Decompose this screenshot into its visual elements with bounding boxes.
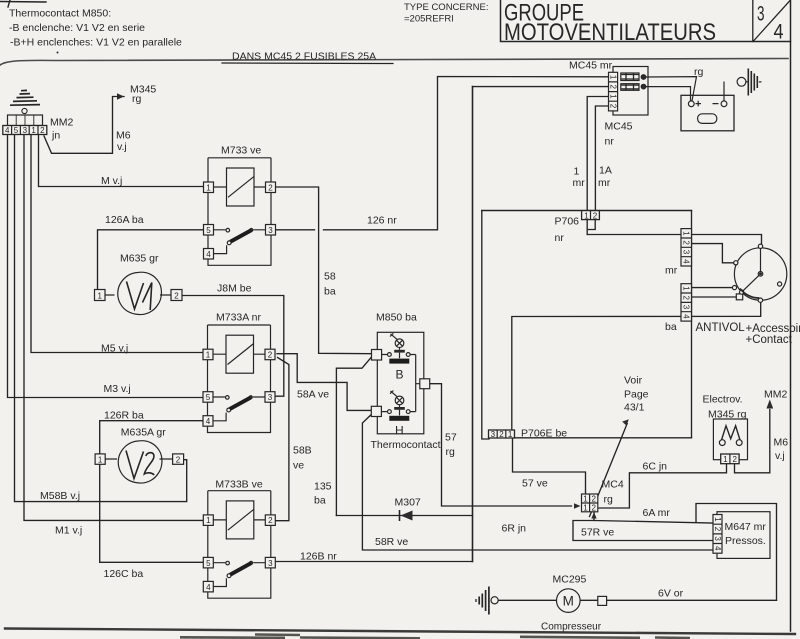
wire antivol lower connector to circle bottom-left square	[692, 296, 737, 298]
bottom border	[5, 629, 795, 635]
svg-text:2: 2	[609, 84, 618, 89]
svg-text:6R jn: 6R jn	[502, 523, 527, 535]
ground compressor	[476, 587, 498, 615]
svg-text:M v.j: M v.j	[101, 175, 122, 187]
svg-text:1: 1	[723, 455, 728, 464]
svg-text:1: 1	[583, 504, 588, 513]
svg-text:M635A gr: M635A gr	[121, 427, 166, 439]
svg-text:3: 3	[713, 536, 722, 541]
svg-text:2: 2	[176, 455, 181, 464]
svg-text:mr: mr	[598, 177, 611, 189]
thermocontact M850	[371, 332, 429, 434]
svg-text:2: 2	[593, 211, 598, 220]
svg-text:43/1: 43/1	[624, 402, 645, 414]
svg-text:v.j: v.j	[775, 450, 785, 462]
wire 58A ve : M733A pin2 branch to M850 H pin	[277, 354, 371, 411]
svg-text:1: 1	[206, 183, 211, 192]
wire P706E bottom out	[515, 437, 692, 439]
wire M58B vj : MM2 pin5 to M635A pin2	[15, 135, 187, 502]
diode M307	[399, 511, 401, 520]
svg-text:58B: 58B	[293, 445, 312, 457]
svg-text:1: 1	[97, 291, 102, 300]
svg-text:4: 4	[206, 583, 211, 592]
sheet top edge line	[0, 59, 788, 66]
svg-text:M58B v.j: M58B v.j	[40, 490, 80, 502]
svg-text:3: 3	[23, 126, 28, 135]
wire fuse2 feed vertical A	[473, 86, 609, 88]
svg-text:rg: rg	[132, 93, 141, 105]
arrowhead up into MC4	[591, 512, 596, 518]
wire M307 branch	[336, 515, 472, 517]
svg-text:58R ve: 58R ve	[375, 536, 408, 548]
svg-text:1: 1	[609, 75, 618, 80]
svg-text:P706E be: P706E be	[521, 428, 567, 440]
svg-text:2: 2	[174, 291, 179, 300]
svg-text:M635 gr: M635 gr	[120, 253, 159, 265]
svg-text:1: 1	[206, 516, 211, 525]
junction dots	[641, 75, 646, 80]
svg-text:57: 57	[445, 432, 457, 444]
pressure switch M647	[713, 512, 770, 559]
svg-text:mr: mr	[665, 265, 678, 277]
svg-text:3: 3	[491, 430, 496, 439]
wire antivol top connector to circle upper contact	[692, 244, 735, 263]
connector P706	[582, 211, 600, 220]
svg-text:5: 5	[14, 126, 19, 135]
svg-text:J8M be: J8M be	[217, 283, 252, 295]
svg-text:M307: M307	[395, 497, 421, 509]
wire 57 ve : to MC4 pin1	[513, 438, 586, 494]
svg-text:MC45 mr: MC45 mr	[569, 60, 613, 72]
svg-text:MOTOVENTILATEURS: MOTOVENTILATEURS	[504, 19, 716, 46]
svg-text:126C ba: 126C ba	[104, 568, 144, 580]
page right border	[790, 0, 792, 631]
svg-text:1: 1	[31, 126, 36, 135]
wire 126B nr : M733B pin3 to vertical A	[276, 561, 473, 563]
svg-text:2: 2	[40, 126, 45, 135]
wire 57R ve : MC4 to M647 pin3	[573, 512, 713, 541]
page index 3/4 box	[753, 0, 790, 42]
svg-text:ba: ba	[314, 495, 326, 507]
wire 126R ba / 126C ba : M733A pin4 to M635A pin1 to M733B pin5	[100, 421, 204, 563]
svg-text:126A ba: 126A ba	[105, 214, 144, 226]
svg-text:Pressos.: Pressos.	[725, 535, 766, 547]
fuse F2	[621, 84, 639, 91]
svg-text:4: 4	[713, 546, 722, 551]
svg-text:1A: 1A	[599, 165, 612, 177]
svg-text:M733B ve: M733B ve	[215, 479, 262, 491]
wire antivol lower connector to circle left contact	[692, 287, 734, 289]
svg-text:MC4: MC4	[602, 479, 624, 491]
electrovalve M345	[713, 419, 747, 464]
ground MM2	[10, 90, 40, 113]
relay M733B	[203, 491, 275, 599]
connector ANTIVOL bottom	[681, 284, 692, 321]
svg-text:2: 2	[591, 495, 596, 504]
svg-text:M1 v.j: M1 v.j	[55, 525, 82, 537]
relay M733	[204, 158, 276, 265]
svg-text:3: 3	[268, 393, 273, 402]
wire M vj : MM2 pin2 to M733 pin1	[39, 135, 204, 187]
svg-text:3: 3	[268, 226, 273, 235]
svg-text:+Contact: +Contact	[746, 334, 793, 346]
bottom scan smudges	[180, 635, 690, 639]
svg-text:M6: M6	[774, 437, 789, 449]
wire 1 mr	[587, 97, 608, 211]
wire 6C jn : MC4 to electrovalve pin1	[598, 464, 727, 508]
motor M635 V1	[95, 272, 183, 314]
svg-text:1: 1	[574, 166, 580, 178]
wire 58B ve : down to M733B pin2	[275, 358, 289, 521]
svg-text:126 nr: 126 nr	[367, 215, 397, 227]
wire Voir page arrow	[590, 424, 628, 517]
svg-text:126B nr: 126B nr	[300, 551, 337, 563]
connector MC4	[582, 494, 598, 512]
svg-text:M850 ba: M850 ba	[376, 312, 417, 324]
wire P706 below jog	[587, 219, 595, 235]
svg-text:rg: rg	[446, 446, 455, 458]
svg-text:MM2: MM2	[764, 389, 787, 401]
M850 internal common wire	[416, 355, 420, 412]
svg-text:2: 2	[713, 527, 722, 532]
compressor MC295	[557, 589, 607, 613]
fuse box MC45	[609, 67, 697, 116]
wire 57 rg : M850 right pin to MC4	[430, 384, 572, 506]
wire 135 ba : M850 B pin down to M307	[336, 357, 371, 516]
svg-text:6A mr: 6A mr	[643, 507, 671, 519]
svg-text:-B enclenche: V1 V2 en serie: -B enclenche: V1 V2 en serie	[9, 22, 145, 34]
underline DANS MC45	[222, 62, 393, 65]
svg-text:57 ve: 57 ve	[522, 478, 548, 490]
svg-text:58A ve: 58A ve	[297, 389, 329, 401]
svg-text:P706: P706	[555, 216, 580, 228]
wire antivol circle bottom out	[512, 302, 761, 430]
svg-text:4: 4	[682, 314, 691, 319]
svg-text:nr: nr	[605, 136, 615, 148]
svg-text:TYPE CONCERNE:: TYPE CONCERNE:	[404, 2, 488, 13]
svg-text:2: 2	[499, 430, 504, 439]
svg-text:4: 4	[206, 250, 211, 259]
svg-text:3: 3	[268, 559, 273, 568]
svg-text:rg: rg	[604, 494, 613, 506]
wire 6R feed vertical	[482, 211, 489, 440]
svg-text:Compresseur: Compresseur	[541, 622, 602, 633]
svg-text:2: 2	[609, 104, 618, 109]
svg-text:mr: mr	[573, 177, 586, 189]
svg-text:M: M	[563, 594, 574, 609]
svg-text:4: 4	[5, 126, 10, 135]
svg-text:1: 1	[713, 517, 722, 522]
wire 6A mr : MC4 to M647 pin2	[594, 521, 713, 524]
svg-text:6C jn: 6C jn	[643, 461, 668, 473]
svg-text:M345 rg: M345 rg	[708, 409, 747, 421]
top-left corner tick	[0, 0, 46, 7]
svg-text:M733 ve: M733 ve	[221, 145, 261, 157]
svg-text:M647 mr: M647 mr	[725, 521, 767, 533]
title block box	[501, 0, 791, 42]
wire M6 vj / M345 branch	[44, 97, 124, 154]
ground battery	[737, 69, 761, 96]
svg-text:2: 2	[591, 504, 596, 513]
svg-text:Thermocontact M850:: Thermocontact M850:	[9, 8, 111, 20]
svg-text:B: B	[396, 368, 404, 382]
fuse F1	[621, 73, 639, 81]
svg-text:-B+H enclenches: V1 V2 en para: -B+H enclenches: V1 V2 en parallele	[10, 37, 182, 49]
svg-text:M733A nr: M733A nr	[216, 312, 261, 324]
svg-text:2: 2	[682, 240, 691, 245]
svg-text:58: 58	[324, 271, 336, 283]
connector MM2	[3, 115, 47, 135]
svg-text:Electrov.: Electrov.	[703, 394, 743, 406]
wire 58R ve : M850 H pin down to M647 pin4	[362, 415, 713, 551]
svg-text:1: 1	[609, 94, 618, 99]
wire M3 vj : MM2 pin3 to M733A pin5	[8, 135, 203, 398]
svg-text:DANS MC45 2 FUSIBLES 25A: DANS MC45 2 FUSIBLES 25A	[232, 51, 376, 63]
svg-text:3: 3	[757, 3, 765, 26]
wire ANTIVOL main vertical	[691, 211, 693, 438]
wire 1A mr	[595, 106, 608, 211]
arrowhead M345	[117, 93, 124, 99]
svg-text:1: 1	[584, 211, 589, 220]
ignition switch ANTIVOL	[732, 244, 786, 302]
svg-text:3: 3	[682, 305, 691, 310]
svg-text:M3 v.j: M3 v.j	[104, 383, 131, 395]
svg-text:5: 5	[206, 559, 211, 568]
wire 58 ba : M733 pin2 to M850 B pin	[276, 187, 372, 354]
svg-text:2: 2	[268, 183, 273, 192]
arrowhead into MC4 pin 1 low	[574, 503, 581, 509]
svg-text:v.j: v.j	[117, 141, 127, 153]
wires to battery	[646, 77, 697, 101]
svg-text:1: 1	[98, 455, 103, 464]
wire M5 vj : MM2 pin1 to M733A pin1	[31, 135, 203, 353]
connector ANTIVOL top	[681, 229, 692, 266]
wire M1 vj : MM2 pin4 to M733B pin1	[24, 135, 204, 521]
svg-text:Page: Page	[624, 389, 649, 401]
svg-text:MM2: MM2	[50, 117, 73, 129]
stray dot	[57, 52, 59, 54]
svg-text:2: 2	[682, 295, 691, 300]
wire 126A ba : M733 pin5 to M635 pin1	[98, 230, 204, 290]
svg-text:ANTIVOL: ANTIVOL	[696, 322, 746, 334]
wire frame over M647 to compressor feed	[696, 504, 777, 601]
svg-text:1: 1	[583, 495, 588, 504]
svg-text:57R ve: 57R ve	[581, 527, 614, 539]
arrowhead voir	[622, 419, 629, 425]
svg-text:1: 1	[508, 430, 513, 439]
svg-text:MC45: MC45	[605, 121, 633, 133]
wire P706 feed horizontal	[482, 210, 692, 212]
battery	[681, 82, 734, 131]
wire 6V or : compressor line	[498, 599, 777, 601]
wire MM2 from electrovalve pin2	[735, 410, 770, 473]
wire 126 nr : M733 pin3 to MC45 fuse 1	[276, 77, 609, 230]
svg-text:MC295: MC295	[553, 574, 587, 586]
svg-text:M5 v.j: M5 v.j	[101, 343, 128, 355]
svg-text:2: 2	[268, 516, 273, 525]
svg-text:4: 4	[774, 21, 784, 44]
svg-text:5: 5	[206, 393, 211, 402]
svg-text:nr: nr	[555, 232, 565, 244]
svg-text:1: 1	[682, 231, 691, 236]
wire J8M be : M635 pin2 to M733A pin3	[182, 296, 284, 397]
arrowhead MM2	[766, 400, 773, 409]
svg-text:ba: ba	[324, 286, 336, 298]
svg-text:=205REFRI: =205REFRI	[404, 14, 454, 25]
svg-text:ve: ve	[293, 460, 304, 472]
svg-text:1: 1	[206, 351, 211, 360]
svg-text:1: 1	[682, 286, 691, 291]
thermo element H	[381, 391, 415, 421]
svg-text:H: H	[395, 424, 404, 438]
svg-text:5: 5	[206, 226, 211, 235]
svg-text:Thermocontact: Thermocontact	[371, 439, 441, 451]
svg-text:Voir: Voir	[624, 375, 643, 387]
svg-text:4: 4	[682, 259, 691, 264]
connector P706E	[489, 430, 515, 438]
svg-text:3: 3	[682, 250, 691, 255]
relay M733A	[203, 325, 275, 433]
thermo element B	[382, 333, 416, 363]
svg-text:jn: jn	[51, 130, 60, 142]
svg-text:2: 2	[732, 455, 737, 464]
svg-text:4: 4	[206, 417, 211, 426]
svg-text:M6: M6	[116, 130, 131, 142]
svg-text:135: 135	[314, 481, 332, 493]
svg-text:6V or: 6V or	[658, 588, 684, 600]
svg-text:126R ba: 126R ba	[104, 410, 144, 422]
motor M635A V2	[95, 441, 184, 483]
svg-text:2: 2	[268, 351, 273, 360]
svg-text:rg: rg	[694, 66, 703, 78]
wire feed to ANTIVOL top contact	[587, 235, 761, 246]
